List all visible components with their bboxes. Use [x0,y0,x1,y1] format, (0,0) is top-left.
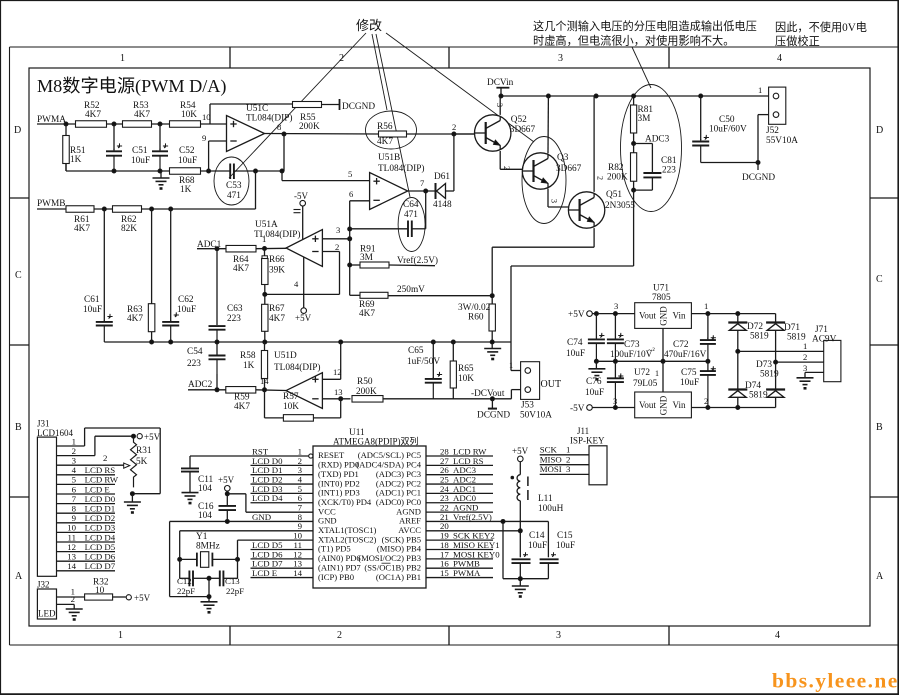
svg-text:223: 223 [187,359,201,369]
svg-text:OUT: OUT [541,379,562,390]
svg-text:ISP-KEY: ISP-KEY [570,436,605,446]
svg-text:4K7: 4K7 [233,264,249,274]
svg-text:1: 1 [566,445,570,455]
svg-text:LCD D6: LCD D6 [85,552,116,562]
gnd rail under C14 C15 [503,578,548,580]
ellipse highlight Q3 [522,137,566,224]
ellipse highlight C64 [398,198,425,252]
wire Q52 base [454,133,475,135]
svg-text:1uF/50V: 1uF/50V [407,357,440,367]
U11 pin 4 wire net LCD D2 [251,483,314,485]
J31 pin 14 [57,570,116,572]
svg-text:1: 1 [758,85,762,95]
resistor R59 [226,387,256,394]
svg-text:200K: 200K [356,387,377,397]
svg-text:D72: D72 [747,322,763,332]
svg-text:R56: R56 [377,122,393,132]
wire Q3 collector [547,96,549,153]
svg-text:2: 2 [72,446,76,456]
J31 pin 12 [57,551,116,553]
svg-text:3D667: 3D667 [556,164,582,174]
J31 pin 6 [57,493,116,495]
svg-text:2: 2 [103,453,107,463]
svg-text:Vin: Vin [673,400,686,410]
svg-text:+5V: +5V [218,475,235,485]
U11 pin 2 wire net LCD D0 [251,464,314,466]
regulator U71 7805 [635,303,692,329]
svg-text:10uF: 10uF [585,388,604,398]
svg-text:1K: 1K [180,185,192,195]
resistor R54 [170,121,201,128]
svg-text:LCD1604: LCD1604 [37,428,74,438]
U11 SS overline [382,562,391,564]
wire divider to OUT [633,190,635,266]
svg-text:3W/0.02: 3W/0.02 [458,303,491,313]
svg-text:5: 5 [348,169,352,179]
svg-text:3D667: 3D667 [510,125,536,135]
svg-text:4K7: 4K7 [359,309,375,319]
resistor R50 [352,396,383,403]
wire R64 to U51A out [256,247,286,249]
svg-text:12: 12 [333,367,342,377]
leader line to C64 [376,34,410,197]
ground under C14 [519,579,521,586]
capacitor C15 [547,521,549,557]
svg-text:9: 9 [72,513,77,523]
svg-text:10uF: 10uF [178,156,197,166]
U11 pin 11 wire net LCD D5 [251,549,314,551]
svg-text:6: 6 [349,189,354,199]
svg-text:C: C [15,270,22,281]
U11 pin 3 wire net LCD D1 [251,474,314,476]
vertical net U51B- to R69 [349,201,351,295]
resistor R82 [631,153,637,182]
ellipse highlight C53 [214,157,249,205]
U11 pin 10 wire [238,539,314,541]
svg-text:3: 3 [558,53,563,64]
svg-text:+5V: +5V [134,593,151,603]
svg-text:10K: 10K [458,374,474,384]
op-amp U51C [227,116,265,152]
leader line to R56 [372,34,387,110]
wire R62 onward [142,208,256,210]
svg-text:M8数字电源(PWM D/A): M8数字电源(PWM D/A) [37,76,226,97]
capacitor C53 [229,164,231,180]
svg-text:471: 471 [404,210,418,220]
svg-text:10uF: 10uF [83,305,102,315]
svg-text:223: 223 [662,166,676,176]
svg-text:3: 3 [72,456,77,466]
svg-text:U51D: U51D [274,351,297,361]
svg-text:C63: C63 [227,304,243,314]
svg-text:4K7: 4K7 [127,314,143,324]
svg-text:1: 1 [509,360,513,370]
svg-text:470uF/16V: 470uF/16V [664,350,707,360]
wire R56 to Q52 base [407,133,479,135]
wire PWMA [37,123,75,125]
wire U51A inverting feedback [322,251,339,253]
U11 pin 18 wire net MISO KEY1 [426,549,493,551]
svg-text:U51A: U51A [255,220,278,230]
wire node R52-R53 [107,123,124,125]
svg-text:C12: C12 [177,576,192,586]
svg-text:C: C [876,274,883,285]
svg-text:GND: GND [252,512,271,522]
resistor R67 [262,304,268,331]
svg-text:C74: C74 [567,338,583,348]
wire to J53 pin2 [510,390,512,399]
ground at J32 [66,608,83,610]
capacitor C62 [170,209,172,321]
svg-text:DCVin: DCVin [487,78,514,88]
J31 pin 4 [57,474,116,476]
capacitor C50 [700,96,702,140]
svg-text:4: 4 [72,465,77,475]
svg-text:MOSI: MOSI [540,464,562,474]
svg-text:15: 15 [440,568,449,578]
svg-text:+5V: +5V [512,446,529,456]
svg-text:6: 6 [72,484,77,494]
wire Vref branch down [502,521,504,578]
resistor R53 [123,121,152,128]
capacitor C63 [216,249,218,325]
svg-text:R59: R59 [234,393,250,403]
svg-text:bbs.yleee.net: bbs.yleee.net [772,669,899,693]
ellipse highlight R56 [366,111,417,149]
svg-text:压做校正: 压做校正 [775,34,820,48]
svg-text:5819: 5819 [760,370,779,380]
svg-text:U51C: U51C [246,104,268,114]
svg-text:TL084(DIP): TL084(DIP) [246,113,292,124]
wire PWMB [37,208,67,210]
svg-text:(OC1A) PB1: (OC1A) PB1 [376,572,421,582]
svg-text:4K7: 4K7 [74,224,90,234]
connector J53 [511,370,523,372]
svg-text:14: 14 [67,561,76,571]
gnd rail row8 [169,521,171,596]
capacitor C73 [614,314,616,339]
svg-text:2: 2 [803,352,807,362]
svg-text:+5V: +5V [568,310,585,320]
J11 pin3 MOSI [540,473,589,475]
svg-text:C81: C81 [661,156,677,166]
wire XTAL2 [237,540,239,559]
svg-text:8: 8 [277,122,281,132]
resistor R51 [65,124,67,136]
svg-text:Vin: Vin [673,311,686,321]
svg-text:4148: 4148 [433,200,452,210]
svg-text:时虚高，但电流很小，对使用影响不大。: 时虚高，但电流很小，对使用影响不大。 [533,34,734,48]
capacitor C11 [189,456,191,468]
J31 pin 9 [57,522,116,524]
svg-text:C14: C14 [529,531,545,541]
svg-text:+5V: +5V [295,313,312,323]
svg-text:3: 3 [614,301,618,311]
svg-text:3: 3 [336,225,340,235]
svg-text:D73: D73 [756,360,772,370]
svg-text:3: 3 [613,396,617,406]
bottom rail PWMA filter [65,164,67,172]
svg-text:C75: C75 [681,368,697,378]
svg-text:50V10A: 50V10A [520,411,552,421]
top rail DCVin [499,95,776,97]
svg-text:C73: C73 [624,340,640,350]
U11 pin 22 wire net AGND [426,511,493,513]
op-amp U51A mirrored [286,230,322,267]
wire U51B -in [350,200,370,202]
wire U51B output [408,190,435,192]
capacitor C72 [707,314,709,339]
op-amp U51D mirrored [286,373,322,409]
svg-text:10uF: 10uF [680,378,699,388]
svg-text:J31: J31 [37,419,50,429]
U11 pin 7 wire [246,511,313,513]
J31 pin 1 [57,445,85,447]
svg-text:1: 1 [803,341,807,351]
inner border frame [29,68,870,626]
U11 pin 21 wire net Vref(2.5V) [426,520,548,522]
wire R55 branch [209,104,211,124]
svg-text:C15: C15 [557,531,573,541]
capacitor C13 [209,577,220,579]
svg-text:J32: J32 [37,580,50,590]
svg-text:TL084(DIP): TL084(DIP) [254,229,300,240]
svg-text:22pF: 22pF [226,586,244,596]
svg-text:2: 2 [337,630,342,641]
diode D74 [737,351,739,389]
capacitor C65 [432,342,434,378]
svg-text:12: 12 [67,542,76,552]
svg-text:471: 471 [227,191,241,201]
svg-text:10: 10 [202,112,211,122]
svg-text:MISO: MISO [540,455,562,465]
svg-text:4K7: 4K7 [234,402,250,412]
resistor R58 [261,351,267,379]
capacitor C52 [159,124,161,150]
svg-text:J71: J71 [815,325,828,335]
svg-text:100uF/10V: 100uF/10V [610,350,653,360]
svg-text:7: 7 [72,494,77,504]
U11 pin 5 wire net LCD D3 [251,492,314,494]
wire U51B +in [281,171,283,181]
regulator U72 79L05 [635,392,692,418]
svg-text:PWMB: PWMB [37,199,65,209]
svg-text:14: 14 [260,376,269,386]
svg-text:Q52: Q52 [511,115,527,125]
U11 pin 13 wire net LCD D7 [251,567,314,569]
outer border frame [10,46,899,48]
svg-text:8: 8 [72,504,77,514]
svg-text:L11: L11 [538,494,553,504]
J31 pin 13 [57,560,116,562]
capacitor C51 [113,124,115,150]
wire U51D -in [322,398,350,400]
svg-text:C13: C13 [225,576,240,586]
resistor R57 feedback [264,390,266,418]
svg-text:LCD D3: LCD D3 [85,523,116,533]
ground at crystal [201,601,218,603]
svg-text:4K7: 4K7 [377,137,393,147]
svg-text:TL084(DIP): TL084(DIP) [378,163,424,174]
inductor L11 [517,475,520,501]
resistor R91 [350,264,360,266]
wire Q51 collector [593,96,595,192]
svg-text:223: 223 [227,314,241,324]
svg-text:1: 1 [118,630,123,641]
svg-text:R60: R60 [468,313,484,323]
svg-text:ATMEGA8(PDIP)双列: ATMEGA8(PDIP)双列 [333,436,419,447]
capacitor C54 [216,342,218,355]
ground at R31 [131,494,133,502]
U11 pin 1 wire net RST [190,455,309,457]
wire L11 to AVCC pin20 [519,501,521,531]
svg-text:82K: 82K [121,224,137,234]
svg-text:13: 13 [334,387,343,397]
U11 pin 12 wire net LCD D6 [251,558,314,560]
svg-text:这几个测输入电压的分压电阻造成输出低电压: 这几个测输入电压的分压电阻造成输出低电压 [533,19,757,33]
svg-text:4: 4 [777,53,782,64]
capacitor C81 [651,144,653,174]
resistor R62 [113,206,142,213]
svg-text:5: 5 [72,475,77,485]
svg-text:200K: 200K [299,122,320,132]
net label 250mV wire [388,295,492,297]
svg-text:4K7: 4K7 [85,110,101,120]
wire J31 pin1 loop [84,428,86,446]
svg-text:LCD RS: LCD RS [85,465,116,475]
svg-text:DCGND: DCGND [742,173,775,183]
svg-text:U71: U71 [653,284,669,294]
svg-text:79L05: 79L05 [633,379,658,389]
svg-text:GND: GND [659,395,669,415]
U11 pin 24 wire net ADC1 [426,492,493,494]
J11 pin1 SCK [540,454,589,456]
svg-text:1K: 1K [243,361,255,371]
svg-text:C64: C64 [403,200,419,210]
wire J71 pin2 [776,361,824,363]
svg-text:10: 10 [67,523,76,533]
svg-text:7805: 7805 [652,293,671,303]
capacitor C12 [179,559,181,578]
resistor R65 [452,342,454,361]
svg-text:-5V: -5V [570,404,585,414]
connector J71 [824,340,841,381]
svg-text:DCGND: DCGND [477,411,510,421]
J31 pin 7 [57,503,116,505]
op-amp U51B [370,173,408,210]
resistor R69 [350,294,360,296]
potentiometer R31 [131,436,137,487]
svg-text:3: 3 [495,103,504,107]
svg-text:10uF/60V: 10uF/60V [709,125,747,135]
svg-text:5819: 5819 [749,391,768,401]
J31 pin 11 [57,541,116,543]
svg-text:C50: C50 [719,115,735,125]
U11 pin 27 wire net LCD RS [426,464,493,466]
leader line to R81 divider [632,47,651,88]
wire Q52 emitter to Q3 base [499,151,501,169]
ground at C11 [182,492,199,494]
svg-text:4K7: 4K7 [269,314,285,324]
resistor R32 [85,594,113,600]
svg-text:LCD D4: LCD D4 [252,493,283,503]
svg-text:U51B: U51B [378,153,400,163]
svg-text:Y1: Y1 [196,532,208,542]
svg-text:Vout: Vout [639,311,656,321]
svg-text:LCD E: LCD E [252,568,277,578]
svg-text:D: D [876,125,883,136]
svg-text:2: 2 [452,122,456,132]
resistor R60 [489,304,495,331]
wire VCC pin7 [227,493,246,495]
svg-text:A: A [876,571,884,582]
U11 pin 20 wire [426,530,522,532]
svg-text:100uH: 100uH [538,504,564,514]
capacitor C16 [219,505,237,507]
leader line to C53 [229,33,366,178]
svg-text:104: 104 [198,484,212,494]
capacitor C61 [103,209,105,321]
capacitor C75 [707,361,709,370]
svg-text:Q51: Q51 [606,190,622,200]
svg-text:C53: C53 [226,181,242,191]
svg-text:10uF: 10uF [177,305,196,315]
row ticks right [870,197,898,199]
svg-text:C62: C62 [178,295,194,305]
resistor R66 [264,249,266,256]
resistor R56 [379,131,407,137]
J32 pin1 wire [57,596,85,598]
svg-text:SCK: SCK [540,445,558,455]
diode D72 [737,314,739,323]
ground at C74 [595,361,597,369]
svg-text:1: 1 [120,53,125,64]
svg-text:55V10A: 55V10A [766,136,798,146]
svg-text:LCD D7: LCD D7 [85,561,116,571]
svg-text:1: 1 [72,436,76,446]
svg-text:LCD D0: LCD D0 [85,494,116,504]
svg-text:R31: R31 [136,446,152,456]
svg-text:10uF: 10uF [528,541,547,551]
U11 pin 9 wire [180,530,313,532]
svg-text:R58: R58 [240,351,256,361]
svg-text:Vref(2.5V): Vref(2.5V) [453,512,492,522]
svg-text:C65: C65 [408,346,424,356]
svg-text:9: 9 [202,133,206,143]
capacitor C74 [595,314,597,339]
svg-text:J53: J53 [521,401,534,411]
svg-text:LCD D5: LCD D5 [85,542,116,552]
wire J71 pin1 [738,350,824,352]
svg-text:LCD RW: LCD RW [85,475,119,485]
svg-text:10uF: 10uF [556,541,575,551]
svg-text:3M: 3M [360,253,373,263]
svg-text:LCD D1: LCD D1 [85,504,116,514]
svg-text:1: 1 [704,301,708,311]
wire L11 down to C14 [519,531,521,558]
svg-text:2: 2 [71,594,75,604]
leader line to Q3 [386,33,534,142]
crystal gnd loop [170,596,209,598]
svg-text:TL084(DIP): TL084(DIP) [274,362,320,373]
U11 pin 23 wire net ADC0 [426,502,493,504]
wire R32 to +5V [113,596,126,598]
U11 pin 16 wire net PWMB [426,567,493,569]
wire ADC1 [197,248,227,250]
svg-text:R65: R65 [458,364,474,374]
wire Q52 collector [499,96,501,115]
svg-text:14: 14 [293,568,302,578]
